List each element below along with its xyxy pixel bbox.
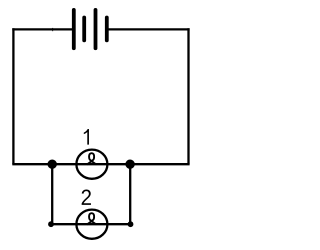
wire: top right horizontal xyxy=(108,28,189,30)
battery B1 short plate right xyxy=(105,18,109,41)
node junction dot right xyxy=(125,160,134,169)
label 1 for lamp L1 xyxy=(84,129,89,145)
lamp L2 envelope circle xyxy=(76,210,107,239)
wire: top left horizontal xyxy=(12,28,72,30)
lamp L1 envelope circle xyxy=(76,150,107,179)
wire: lamp 1 branch horizontal xyxy=(12,163,189,165)
node corner dot bottom right xyxy=(128,221,134,227)
lamp L2 filament loop xyxy=(87,213,97,224)
wire: left vertical xyxy=(12,28,14,164)
battery B1 short plate left xyxy=(82,18,86,41)
battery B1 long plate right xyxy=(94,10,98,48)
wire: lamp 2 branch horizontal xyxy=(51,223,131,225)
wire: right vertical xyxy=(187,28,189,164)
wire: right branch vertical xyxy=(129,164,131,224)
node corner dot bottom left xyxy=(48,221,54,227)
lamp L1 filament loop xyxy=(87,153,97,164)
tick on top wire xyxy=(52,28,54,31)
wire: left branch vertical xyxy=(51,164,53,224)
label 2 for lamp L2 xyxy=(82,190,91,205)
battery B1 long plate left xyxy=(72,10,76,48)
node junction dot left xyxy=(48,160,57,169)
